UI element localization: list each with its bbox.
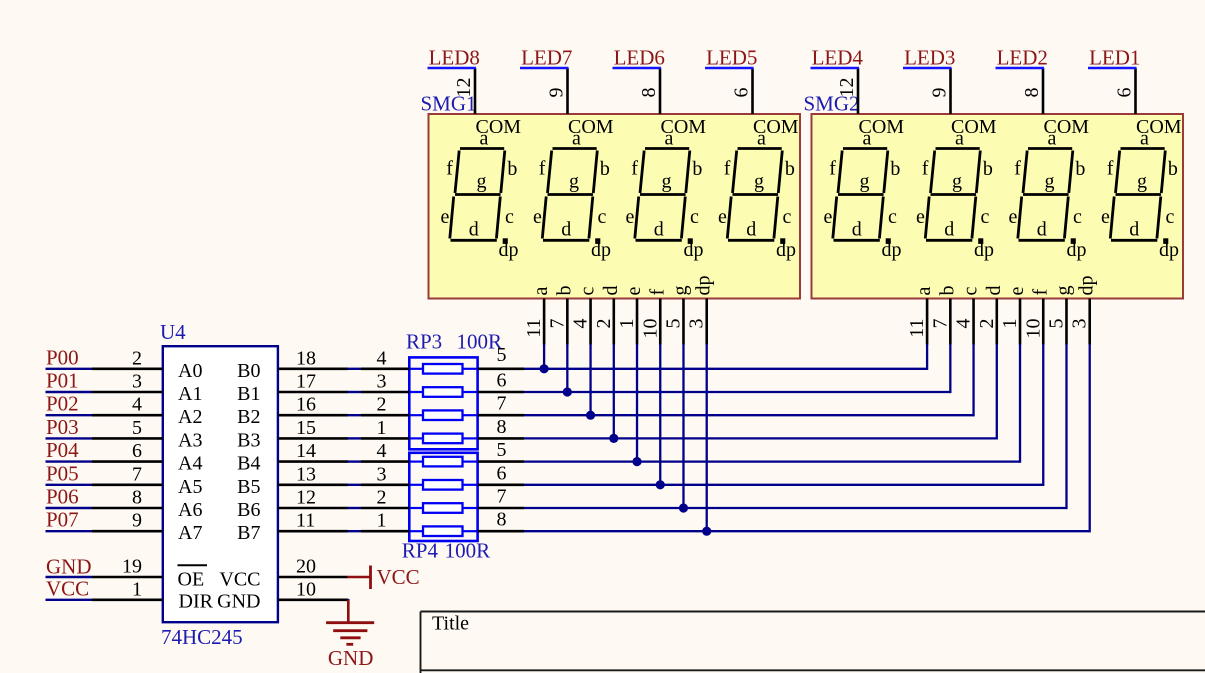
svg-text:c: c [598, 206, 607, 228]
segment f SMG1 digit2 [548, 151, 552, 194]
wire net LED6 [613, 67, 662, 69]
svg-text:f: f [539, 158, 546, 180]
svg-text:7: 7 [132, 463, 142, 485]
segment c SMG1 digit4 [774, 197, 778, 239]
svg-text:B3: B3 [237, 429, 260, 451]
pin 6 U4 [92, 460, 163, 463]
svg-text:RP3: RP3 [406, 330, 442, 354]
svg-text:A4: A4 [178, 453, 202, 475]
svg-text:100R: 100R [445, 539, 491, 563]
pin 2 U4 [92, 367, 163, 370]
svg-text:16: 16 [296, 394, 316, 416]
svg-text:b: b [553, 286, 575, 296]
pin 8 U4 [92, 507, 163, 510]
svg-text:g: g [477, 171, 487, 193]
svg-text:11: 11 [523, 319, 545, 338]
svg-text:A1: A1 [178, 383, 202, 405]
segment d SMG2 digit1 [834, 239, 880, 242]
wire net LED5 [705, 67, 754, 69]
pin 4 RP3 [361, 367, 409, 370]
svg-text:8: 8 [497, 509, 507, 531]
svg-text:4: 4 [132, 394, 142, 416]
svg-text:e: e [441, 206, 450, 228]
IC U4 74HC245 body [163, 346, 278, 622]
svg-text:dp: dp [776, 239, 796, 261]
resistor RP4 element 4 [409, 526, 477, 536]
pin 14 U4 [278, 460, 348, 463]
svg-text:g: g [1045, 171, 1055, 193]
svg-text:f: f [724, 158, 731, 180]
wire net P05 [46, 484, 93, 486]
wire net P03 [46, 437, 93, 439]
wire seg-a SMG1 vertical [543, 344, 545, 369]
wire seg-e SMG1 vertical [636, 344, 638, 462]
segment a SMG1 digit3 [645, 147, 689, 150]
svg-text:4: 4 [570, 319, 592, 329]
svg-text:d: d [944, 218, 954, 240]
svg-text:d: d [469, 218, 479, 240]
svg-text:e: e [1009, 206, 1018, 228]
svg-text:P03: P03 [46, 415, 79, 439]
svg-text:10: 10 [296, 578, 316, 600]
svg-text:P04: P04 [46, 438, 79, 462]
svg-text:d: d [600, 286, 622, 296]
segment dp dot SMG1 digit2 [595, 238, 600, 244]
segment d SMG2 digit4 [1111, 239, 1157, 242]
svg-text:g: g [754, 171, 764, 193]
pin 10 U4 [278, 598, 348, 601]
svg-text:74HC245: 74HC245 [161, 625, 243, 649]
svg-text:a: a [913, 287, 935, 296]
svg-text:c: c [1073, 206, 1082, 228]
wire net LED1 [1088, 67, 1137, 69]
svg-text:3: 3 [132, 371, 142, 393]
svg-text:d: d [852, 218, 862, 240]
svg-text:11: 11 [296, 510, 315, 532]
svg-text:GND: GND [46, 555, 92, 579]
svg-text:f: f [646, 289, 668, 296]
svg-text:d: d [561, 218, 571, 240]
svg-text:3: 3 [1069, 319, 1091, 329]
svg-text:a: a [955, 128, 964, 150]
pin COM SMG1 digit4 [751, 68, 754, 114]
pin 20 U4 [278, 576, 348, 579]
svg-text:dp: dp [684, 239, 704, 261]
wire seg-g SMG2 vertical [1065, 344, 1067, 509]
pin 15 U4 [278, 437, 348, 440]
svg-text:A7: A7 [178, 522, 202, 544]
svg-text:4: 4 [377, 440, 387, 462]
wire row seg-g horizontal [524, 507, 1066, 509]
segment d SMG1 digit1 [451, 239, 497, 242]
svg-text:f: f [1107, 158, 1114, 180]
svg-text:P01: P01 [46, 369, 79, 393]
segment c SMG2 digit1 [879, 197, 883, 239]
pin e SMG2 [1019, 299, 1022, 345]
svg-text:B2: B2 [237, 406, 260, 428]
wire seg-a SMG2 vertical [926, 344, 928, 370]
segment d SMG2 digit2 [926, 239, 972, 242]
svg-text:c: c [783, 206, 792, 228]
svg-text:dp: dp [1076, 276, 1098, 296]
svg-text:B7: B7 [237, 522, 260, 544]
svg-text:P06: P06 [46, 485, 79, 509]
svg-text:b: b [1075, 158, 1085, 180]
wire seg-f SMG1 vertical [659, 344, 661, 485]
wire seg-f SMG2 vertical [1042, 344, 1044, 486]
svg-text:a: a [1140, 128, 1149, 150]
svg-text:RP4: RP4 [402, 539, 439, 563]
wire seg-c SMG1 vertical [589, 344, 591, 415]
segment d SMG1 digit3 [636, 239, 682, 242]
pin 11 U4 [278, 530, 348, 533]
segment g SMG1 digit3 [640, 193, 686, 196]
svg-text:f: f [829, 158, 836, 180]
pin 19 U4 [92, 576, 163, 579]
pin c SMG1 [589, 299, 592, 345]
svg-text:g: g [662, 171, 672, 193]
svg-text:e: e [1006, 287, 1028, 296]
pin 3 RP4 [361, 483, 409, 486]
svg-text:3: 3 [377, 371, 387, 393]
svg-text:LED4: LED4 [812, 45, 864, 69]
junction seg-g SMG1 [679, 503, 688, 512]
wire net LED2 [996, 67, 1045, 69]
svg-text:e: e [623, 287, 645, 296]
pin dp SMG2 [1088, 299, 1091, 345]
segment b SMG2 digit1 [884, 151, 888, 194]
segment c SMG1 digit3 [681, 197, 685, 239]
pin COM SMG1 digit3 [659, 68, 662, 114]
pin 18 U4 [278, 367, 348, 370]
pin c SMG2 [972, 299, 975, 345]
svg-text:B5: B5 [237, 476, 260, 498]
svg-text:e: e [533, 206, 542, 228]
resistor RP3 element 3 [409, 410, 477, 420]
svg-text:8: 8 [1021, 88, 1043, 98]
svg-text:B6: B6 [237, 499, 260, 521]
segment dp dot SMG1 digit4 [780, 238, 785, 244]
svg-text:c: c [960, 287, 982, 296]
wire seg-b SMG1 vertical [566, 344, 568, 392]
segment g SMG1 digit2 [548, 193, 594, 196]
svg-text:2: 2 [976, 319, 998, 329]
pin dp SMG1 [705, 299, 708, 345]
wire row seg-f horizontal [524, 484, 1043, 486]
segment b SMG1 digit1 [501, 151, 505, 194]
pin 2 RP4 [361, 507, 409, 510]
wire row seg-b horizontal [524, 391, 950, 393]
svg-text:f: f [922, 158, 929, 180]
pin b SMG1 [566, 299, 569, 345]
svg-text:12: 12 [296, 487, 316, 509]
junction seg-dp SMG1 [702, 527, 711, 536]
wire net LED8 [428, 67, 477, 69]
svg-text:5: 5 [1045, 319, 1067, 329]
svg-text:3: 3 [377, 463, 387, 485]
segment e SMG2 digit1 [833, 197, 837, 239]
wire seg-dp SMG1 vertical [706, 344, 708, 531]
pin 6 RP4 [478, 483, 524, 486]
svg-text:e: e [626, 206, 635, 228]
wire row seg-dp horizontal [524, 530, 1090, 532]
segment f SMG2 digit1 [838, 151, 842, 194]
svg-text:5: 5 [132, 417, 142, 439]
resistor RP3 element 2 [409, 387, 477, 397]
wire U4-RP [348, 391, 362, 393]
svg-text:LED6: LED6 [614, 45, 665, 69]
svg-text:2: 2 [593, 319, 615, 329]
segment f SMG2 digit2 [931, 151, 935, 194]
pin 2 RP3 [361, 414, 409, 417]
svg-text:e: e [718, 206, 727, 228]
pin g SMG2 [1065, 299, 1068, 345]
svg-text:e: e [824, 206, 833, 228]
pin f SMG2 [1042, 299, 1045, 345]
svg-text:c: c [981, 206, 990, 228]
svg-text:d: d [1129, 218, 1139, 240]
pin d SMG1 [612, 299, 615, 345]
svg-text:4: 4 [953, 319, 975, 329]
svg-text:U4: U4 [160, 320, 186, 344]
svg-text:c: c [505, 206, 514, 228]
wire U4-RP [348, 414, 362, 416]
svg-text:6: 6 [1114, 88, 1136, 98]
svg-text:dp: dp [882, 239, 902, 261]
wire net P04 [46, 460, 93, 462]
pin 17 U4 [278, 391, 348, 394]
svg-text:7: 7 [497, 486, 507, 508]
segment e SMG2 digit3 [1018, 197, 1022, 239]
pin 1 U4 [92, 598, 163, 601]
segment e SMG2 digit2 [925, 197, 929, 239]
segment f SMG2 digit3 [1023, 151, 1027, 194]
pin 5 RP3 [478, 367, 524, 370]
segment a SMG2 digit2 [936, 147, 980, 150]
pin 3 U4 [92, 391, 163, 394]
svg-text:8: 8 [638, 88, 660, 98]
wire seg-g SMG1 vertical [682, 344, 684, 508]
wire U4-RP [348, 368, 362, 370]
svg-text:g: g [952, 171, 962, 193]
svg-text:dp: dp [1159, 239, 1179, 261]
pin a SMG1 [543, 299, 546, 345]
wire seg-e SMG2 vertical [1019, 344, 1021, 463]
segment g SMG2 digit4 [1116, 193, 1162, 196]
wire row seg-d horizontal [524, 437, 997, 439]
wire U4-RP [348, 530, 362, 532]
segment d SMG2 digit3 [1019, 239, 1065, 242]
junction seg-e SMG1 [632, 457, 641, 466]
segment dp dot SMG1 digit3 [688, 238, 693, 244]
pin 1 RP3 [361, 437, 409, 440]
svg-text:1: 1 [616, 319, 638, 329]
svg-text:GND: GND [328, 646, 374, 670]
svg-text:3: 3 [686, 319, 708, 329]
svg-text:1: 1 [999, 319, 1021, 329]
pin COM SMG2 digit1 [857, 68, 860, 114]
svg-text:B4: B4 [237, 453, 260, 475]
junction seg-c SMG1 [586, 411, 595, 420]
svg-text:P02: P02 [46, 392, 79, 416]
title block [421, 612, 1205, 673]
svg-text:A2: A2 [178, 406, 202, 428]
svg-text:d: d [746, 218, 756, 240]
svg-text:6: 6 [497, 462, 507, 484]
svg-text:100R: 100R [457, 330, 503, 354]
svg-text:LED1: LED1 [1089, 45, 1140, 69]
pin 8 RP4 [478, 530, 524, 533]
svg-text:P07: P07 [46, 508, 79, 532]
segment c SMG1 digit2 [589, 197, 593, 239]
wire net P02 [46, 414, 93, 416]
pin 4 U4 [92, 414, 163, 417]
segment a SMG1 digit1 [460, 147, 504, 150]
resistor RP4 element 3 [409, 503, 477, 513]
display SMG2 [812, 114, 1184, 299]
segment a SMG1 digit2 [553, 147, 597, 150]
svg-text:dp: dp [693, 276, 715, 296]
wire net VCC left [46, 599, 93, 601]
pin COM SMG2 digit4 [1134, 68, 1137, 114]
segment b SMG2 digit3 [1069, 151, 1073, 194]
power symbol VCC [347, 566, 370, 590]
svg-text:A0: A0 [178, 360, 202, 382]
svg-text:dp: dp [974, 239, 994, 261]
svg-text:A6: A6 [178, 499, 202, 521]
svg-text:8: 8 [132, 487, 142, 509]
svg-text:6: 6 [132, 440, 142, 462]
segment f SMG2 digit4 [1116, 151, 1120, 194]
pin COM SMG1 digit2 [566, 68, 569, 114]
segment d SMG1 digit4 [728, 239, 774, 242]
svg-text:g: g [569, 171, 579, 193]
svg-text:Title: Title [432, 613, 469, 635]
pin COM SMG1 digit1 [474, 68, 477, 114]
wire seg-d SMG2 vertical [996, 344, 998, 440]
svg-text:10: 10 [1022, 319, 1044, 339]
segment e SMG1 digit3 [635, 197, 639, 239]
pin 7 U4 [92, 483, 163, 486]
svg-text:b: b [600, 158, 610, 180]
svg-text:e: e [916, 206, 925, 228]
segment f SMG1 digit4 [733, 151, 737, 194]
pin f SMG1 [659, 299, 662, 345]
pin d SMG2 [995, 299, 998, 345]
svg-text:b: b [936, 286, 958, 296]
segment e SMG1 digit2 [542, 197, 546, 239]
svg-text:LED3: LED3 [904, 45, 955, 69]
segment dp dot SMG2 digit4 [1163, 238, 1168, 244]
svg-text:P00: P00 [46, 345, 79, 369]
svg-text:a: a [480, 128, 489, 150]
wire row seg-c horizontal [524, 414, 974, 416]
svg-text:VCC: VCC [46, 577, 89, 601]
svg-text:b: b [507, 158, 517, 180]
svg-text:17: 17 [296, 371, 316, 393]
pin 7 RP3 [478, 414, 524, 417]
pin 3 RP3 [361, 391, 409, 394]
segment c SMG2 digit3 [1064, 197, 1068, 239]
resistor RP4 element 2 [409, 480, 477, 490]
segment a SMG2 digit3 [1028, 147, 1072, 150]
pin COM SMG2 digit2 [949, 68, 952, 114]
segment f SMG1 digit3 [640, 151, 644, 194]
segment c SMG1 digit1 [496, 197, 500, 239]
junction seg-b SMG1 [563, 387, 572, 396]
svg-text:1: 1 [377, 417, 387, 439]
svg-text:DIR: DIR [179, 590, 214, 612]
svg-text:GND: GND [217, 590, 260, 612]
svg-text:g: g [669, 286, 691, 296]
pin COM SMG2 digit3 [1042, 68, 1045, 114]
svg-text:b: b [692, 158, 702, 180]
svg-text:1: 1 [377, 510, 387, 532]
svg-text:7: 7 [929, 319, 951, 329]
svg-text:1: 1 [132, 578, 142, 600]
svg-text:7: 7 [546, 319, 568, 329]
segment a SMG1 digit4 [738, 147, 782, 150]
svg-text:11: 11 [906, 319, 928, 338]
pin 1 RP4 [361, 530, 409, 533]
pin 13 U4 [278, 483, 348, 486]
svg-text:13: 13 [296, 463, 316, 485]
junction seg-d SMG1 [609, 434, 618, 443]
svg-text:dp: dp [499, 239, 519, 261]
svg-text:f: f [1029, 289, 1051, 296]
svg-text:5: 5 [662, 319, 684, 329]
svg-text:P05: P05 [46, 461, 79, 485]
svg-text:c: c [577, 287, 599, 296]
svg-text:g: g [1052, 286, 1074, 296]
pin 7 RP4 [478, 507, 524, 510]
resistor RP4 element 1 [409, 457, 477, 467]
segment g SMG1 digit4 [733, 193, 779, 196]
segment e SMG1 digit4 [727, 197, 731, 239]
resistor pack RP4 body [409, 453, 477, 541]
svg-text:20: 20 [296, 556, 316, 578]
wire seg-d SMG1 vertical [613, 344, 615, 438]
svg-text:c: c [888, 206, 897, 228]
svg-text:c: c [690, 206, 699, 228]
power symbol GND [326, 600, 374, 645]
wire row seg-e horizontal [524, 460, 1020, 462]
wire net P00 [46, 368, 93, 370]
svg-text:7: 7 [497, 393, 507, 415]
svg-text:a: a [530, 287, 552, 296]
segment dp dot SMG2 digit2 [978, 238, 983, 244]
svg-text:9: 9 [929, 88, 951, 98]
wire seg-dp SMG2 vertical [1089, 344, 1091, 532]
svg-text:12: 12 [836, 78, 858, 98]
wire net LED3 [903, 67, 952, 69]
svg-text:10: 10 [639, 319, 661, 339]
svg-text:9: 9 [132, 510, 142, 532]
svg-text:a: a [1048, 128, 1057, 150]
svg-text:A5: A5 [178, 476, 202, 498]
svg-text:6: 6 [497, 370, 507, 392]
pin a SMG2 [926, 299, 929, 345]
svg-text:9: 9 [546, 88, 568, 98]
wire net LED7 [520, 67, 569, 69]
svg-text:g: g [860, 171, 870, 193]
wire U4-RP [348, 507, 362, 509]
svg-text:b: b [983, 158, 993, 180]
segment g SMG2 digit2 [931, 193, 977, 196]
segment b SMG2 digit2 [976, 151, 980, 194]
svg-text:b: b [890, 158, 900, 180]
svg-text:19: 19 [122, 556, 142, 578]
